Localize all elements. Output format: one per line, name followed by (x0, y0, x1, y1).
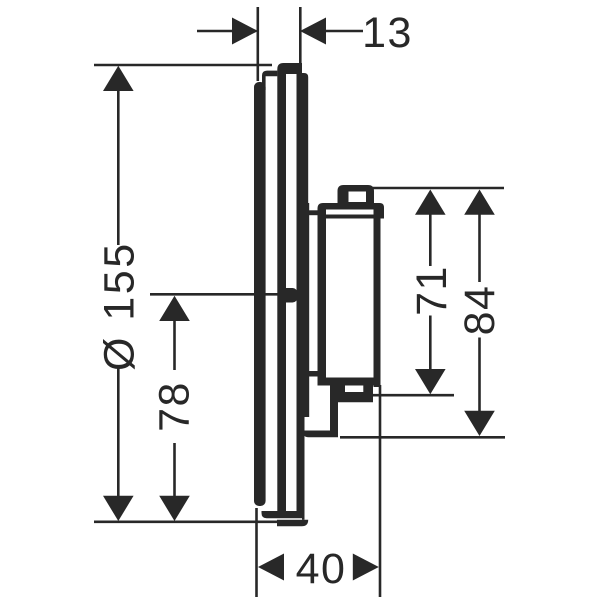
svg-text:78: 78 (151, 381, 199, 432)
valve body right wall (374, 209, 381, 387)
arrow 78 bottom (159, 496, 190, 521)
plate front face C with sleeve bulge (302, 73, 309, 520)
valve body left wall (318, 209, 327, 386)
svg-text:71: 71 (408, 265, 456, 316)
ext line 13 left (256, 7, 259, 81)
dim line 71 upper (429, 214, 432, 266)
ext line 13 right (299, 7, 302, 63)
arrow 71 top (415, 190, 446, 215)
tail line 13 right (326, 30, 363, 33)
dim line 84 lower (478, 338, 481, 413)
dim line 78 lower (173, 443, 176, 497)
union nut foot under body (330, 381, 373, 403)
arrow 40 left (258, 554, 284, 581)
ext line 40 right (379, 385, 382, 597)
arrow 13 right (300, 18, 326, 45)
ext line 84 bottom (340, 436, 505, 439)
arrow 71 bottom (415, 369, 446, 394)
arrow 13 left (232, 18, 258, 45)
arrow 84 top (464, 190, 495, 215)
svg-text:Ø 155: Ø 155 (95, 241, 143, 371)
arrow dia155 bottom (103, 496, 134, 521)
ext line 71 bottom (372, 394, 454, 397)
ext line 40 left (255, 508, 258, 597)
sleeve bottom edge (308, 371, 319, 377)
wall flange bar A (254, 82, 266, 506)
valve body bottom edge (318, 378, 374, 386)
arrow dia155 top (103, 66, 134, 91)
dim line dia155 lower (117, 369, 120, 498)
valve cartridge knob (338, 185, 375, 206)
tail line 13 left (197, 30, 232, 33)
valve flange bottom line (318, 215, 381, 219)
arrow 84 bottom (464, 411, 495, 436)
dimension graphics (94, 7, 505, 597)
arrow 40 right (353, 554, 379, 581)
ext line dia155 top (94, 64, 272, 67)
svg-text:13: 13 (362, 9, 413, 57)
dim line 71 lower (429, 316, 432, 371)
escutcheon plate body B (262, 63, 303, 518)
sleeve top edge (308, 210, 319, 215)
valve flange top cap (318, 203, 385, 219)
plate bottom cap (277, 520, 308, 527)
dim line 78 upper (173, 320, 176, 370)
arrow 78 top (159, 296, 190, 321)
ext line dia155/78 bottom (94, 520, 277, 523)
middle trim cap D (262, 71, 277, 90)
svg-text:40: 40 (296, 545, 347, 593)
handle pivot blob on plate centre (278, 288, 298, 303)
bottom step tube (303, 388, 338, 437)
dim line dia155 upper (117, 90, 120, 245)
svg-text:84: 84 (456, 285, 504, 336)
dim line 84 upper (478, 214, 481, 282)
ext line 78 top (centre line) (150, 293, 279, 296)
ext line 71/84 top (372, 187, 504, 190)
